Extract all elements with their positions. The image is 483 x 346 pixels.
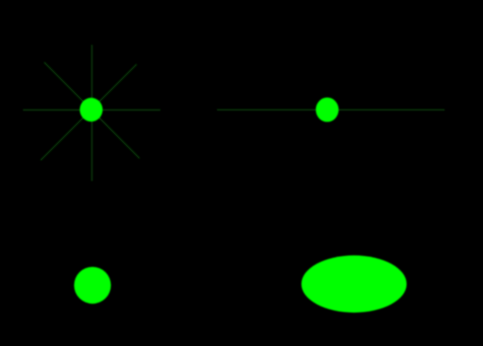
wire: diagonal ray SW-NE of star [41,64,137,160]
wire: diagonal ray NW-SE of star [44,62,139,158]
wire: long horizontal line right [217,109,445,111]
node D: filled ellipse bottom-right [301,255,406,312]
wire: vertical ray of star [91,45,93,181]
wire: horizontal ray of star [23,109,160,111]
node B: dot on horizontal line [316,98,339,122]
node A: center dot of star [80,98,103,122]
node C: filled circle bottom-left [74,267,111,304]
